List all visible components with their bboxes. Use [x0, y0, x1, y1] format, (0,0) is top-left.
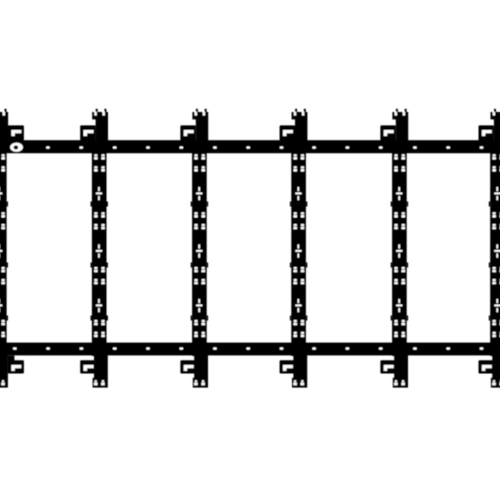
top bar screw dots	[46, 146, 483, 148]
rail 2 head crown	[92, 109, 108, 142]
rail 2 top wall bracket	[80, 125, 95, 140]
rail 4 bottom wall bracket	[280, 360, 295, 373]
rail 2 vertical body	[91, 141, 108, 356]
rail 1 foot	[0, 355, 8, 388]
rail 1 center slot marks	[0, 187, 2, 312]
rail 1 mounting hole rows	[0, 154, 5, 337]
rail 2 bottom wall bracket	[80, 360, 95, 373]
rail 3 foot	[193, 355, 208, 388]
rail 5 foot	[393, 355, 408, 388]
bottom horizontal rail bar	[0, 343, 500, 356]
rail 2 foot	[93, 355, 108, 388]
rail 3 bottom wall bracket	[180, 360, 195, 373]
rail 1 bottom wall bracket	[8, 356, 24, 374]
rail 4 head crown	[292, 109, 308, 142]
bottom bar screw dots	[13, 347, 483, 349]
rail 4 foot	[292, 355, 307, 388]
rail 3 mounting hole rows	[194, 154, 205, 337]
rail 4 center slot marks	[295, 187, 301, 312]
rail 4 vertical body	[290, 141, 307, 356]
rail 5 bottom wall bracket	[380, 360, 395, 373]
rail 6 vertical body	[489, 141, 500, 356]
rail 5 top wall bracket	[380, 125, 395, 140]
rail 3 top wall bracket	[180, 125, 195, 140]
rail 6 bottom wall bracket	[479, 360, 494, 373]
rail 2 center slot marks	[96, 187, 102, 312]
top horizontal rail bar	[0, 140, 500, 153]
rail 6 center slot marks	[494, 187, 500, 312]
rail 1 top wall bracket	[8, 125, 24, 140]
rail 5 vertical body	[391, 141, 408, 356]
rail 6 foot	[491, 355, 500, 388]
rail 1 vertical body	[0, 141, 8, 356]
rail 5 mounting hole rows	[394, 154, 405, 337]
rail 6 top wall bracket	[479, 125, 494, 140]
top bar left grommet hole	[10, 143, 23, 152]
rail 5 center slot marks	[396, 187, 402, 312]
rail 4 mounting hole rows	[294, 154, 305, 337]
rail 3 head crown	[192, 109, 208, 142]
rail 5 head crown	[392, 109, 408, 142]
rail 4 top wall bracket	[280, 125, 295, 140]
rail 3 center slot marks	[196, 187, 202, 312]
rail 6 head crown	[491, 109, 500, 142]
rail 3 vertical body	[191, 141, 208, 356]
rail 1 head crown	[0, 109, 8, 142]
rail 2 mounting hole rows	[94, 154, 105, 337]
rail 6 mounting hole rows	[492, 154, 500, 337]
